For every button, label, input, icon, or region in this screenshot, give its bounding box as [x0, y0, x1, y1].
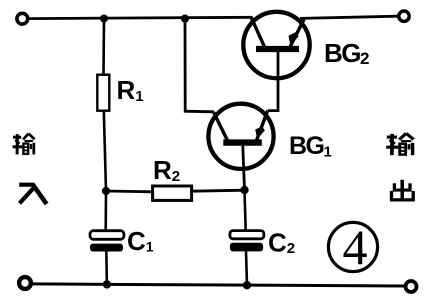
wire bottom rail: [32, 284, 405, 286]
wire C1 bottom lead: [105, 252, 108, 285]
node junction C (R1/R2/C1): [102, 187, 110, 195]
text 输 (output label char 1): [386, 133, 413, 155]
svg-text:4: 4: [343, 219, 368, 275]
capacitor C1: [90, 231, 124, 252]
wire R1 top lead: [102, 19, 105, 76]
wire C2 bottom lead: [246, 251, 247, 285]
svg-text:C1: C1: [127, 226, 154, 256]
svg-text:C2: C2: [268, 228, 295, 258]
text 入 (input label char 2): [19, 185, 46, 204]
svg-text:BG2: BG2: [324, 38, 369, 68]
wire BG1 emitter up to BG2 base: [268, 52, 278, 111]
node junction top at R1: [100, 15, 108, 23]
wire BG2 emitter to output terminal: [300, 16, 398, 18]
node junction BG1 base / C2: [240, 186, 248, 194]
text 出 (output label char 2): [390, 180, 415, 202]
wire R2 to BG1 base node: [192, 190, 245, 191]
ground terminal (bottom left): [19, 277, 31, 289]
wire C2 top lead: [245, 190, 246, 231]
svg-text:BG1: BG1: [289, 132, 332, 161]
output terminal (top right): [399, 11, 409, 21]
node junction bottom C2: [243, 281, 251, 289]
transistor BG2: [243, 12, 309, 78]
wire C1 top lead: [104, 191, 107, 231]
transistor BG1: [208, 104, 273, 190]
wire from node C to R2: [106, 190, 153, 194]
node junction bottom C1: [103, 280, 111, 288]
resistor R2: [153, 186, 192, 200]
wire R1 bottom lead: [104, 111, 106, 191]
wire from top rail down to BG1 collector: [185, 19, 214, 112]
ground terminal (bottom right): [406, 281, 417, 292]
figure number circle 4: [328, 222, 377, 271]
capacitor C2: [230, 231, 264, 252]
svg-text:R1: R1: [117, 75, 144, 105]
resistor R1: [97, 75, 109, 111]
svg-text:R2: R2: [153, 155, 180, 185]
wire top rail left: [29, 17, 253, 18]
node junction top at BG1 branch: [181, 15, 189, 23]
input terminal (top left): [17, 13, 28, 24]
